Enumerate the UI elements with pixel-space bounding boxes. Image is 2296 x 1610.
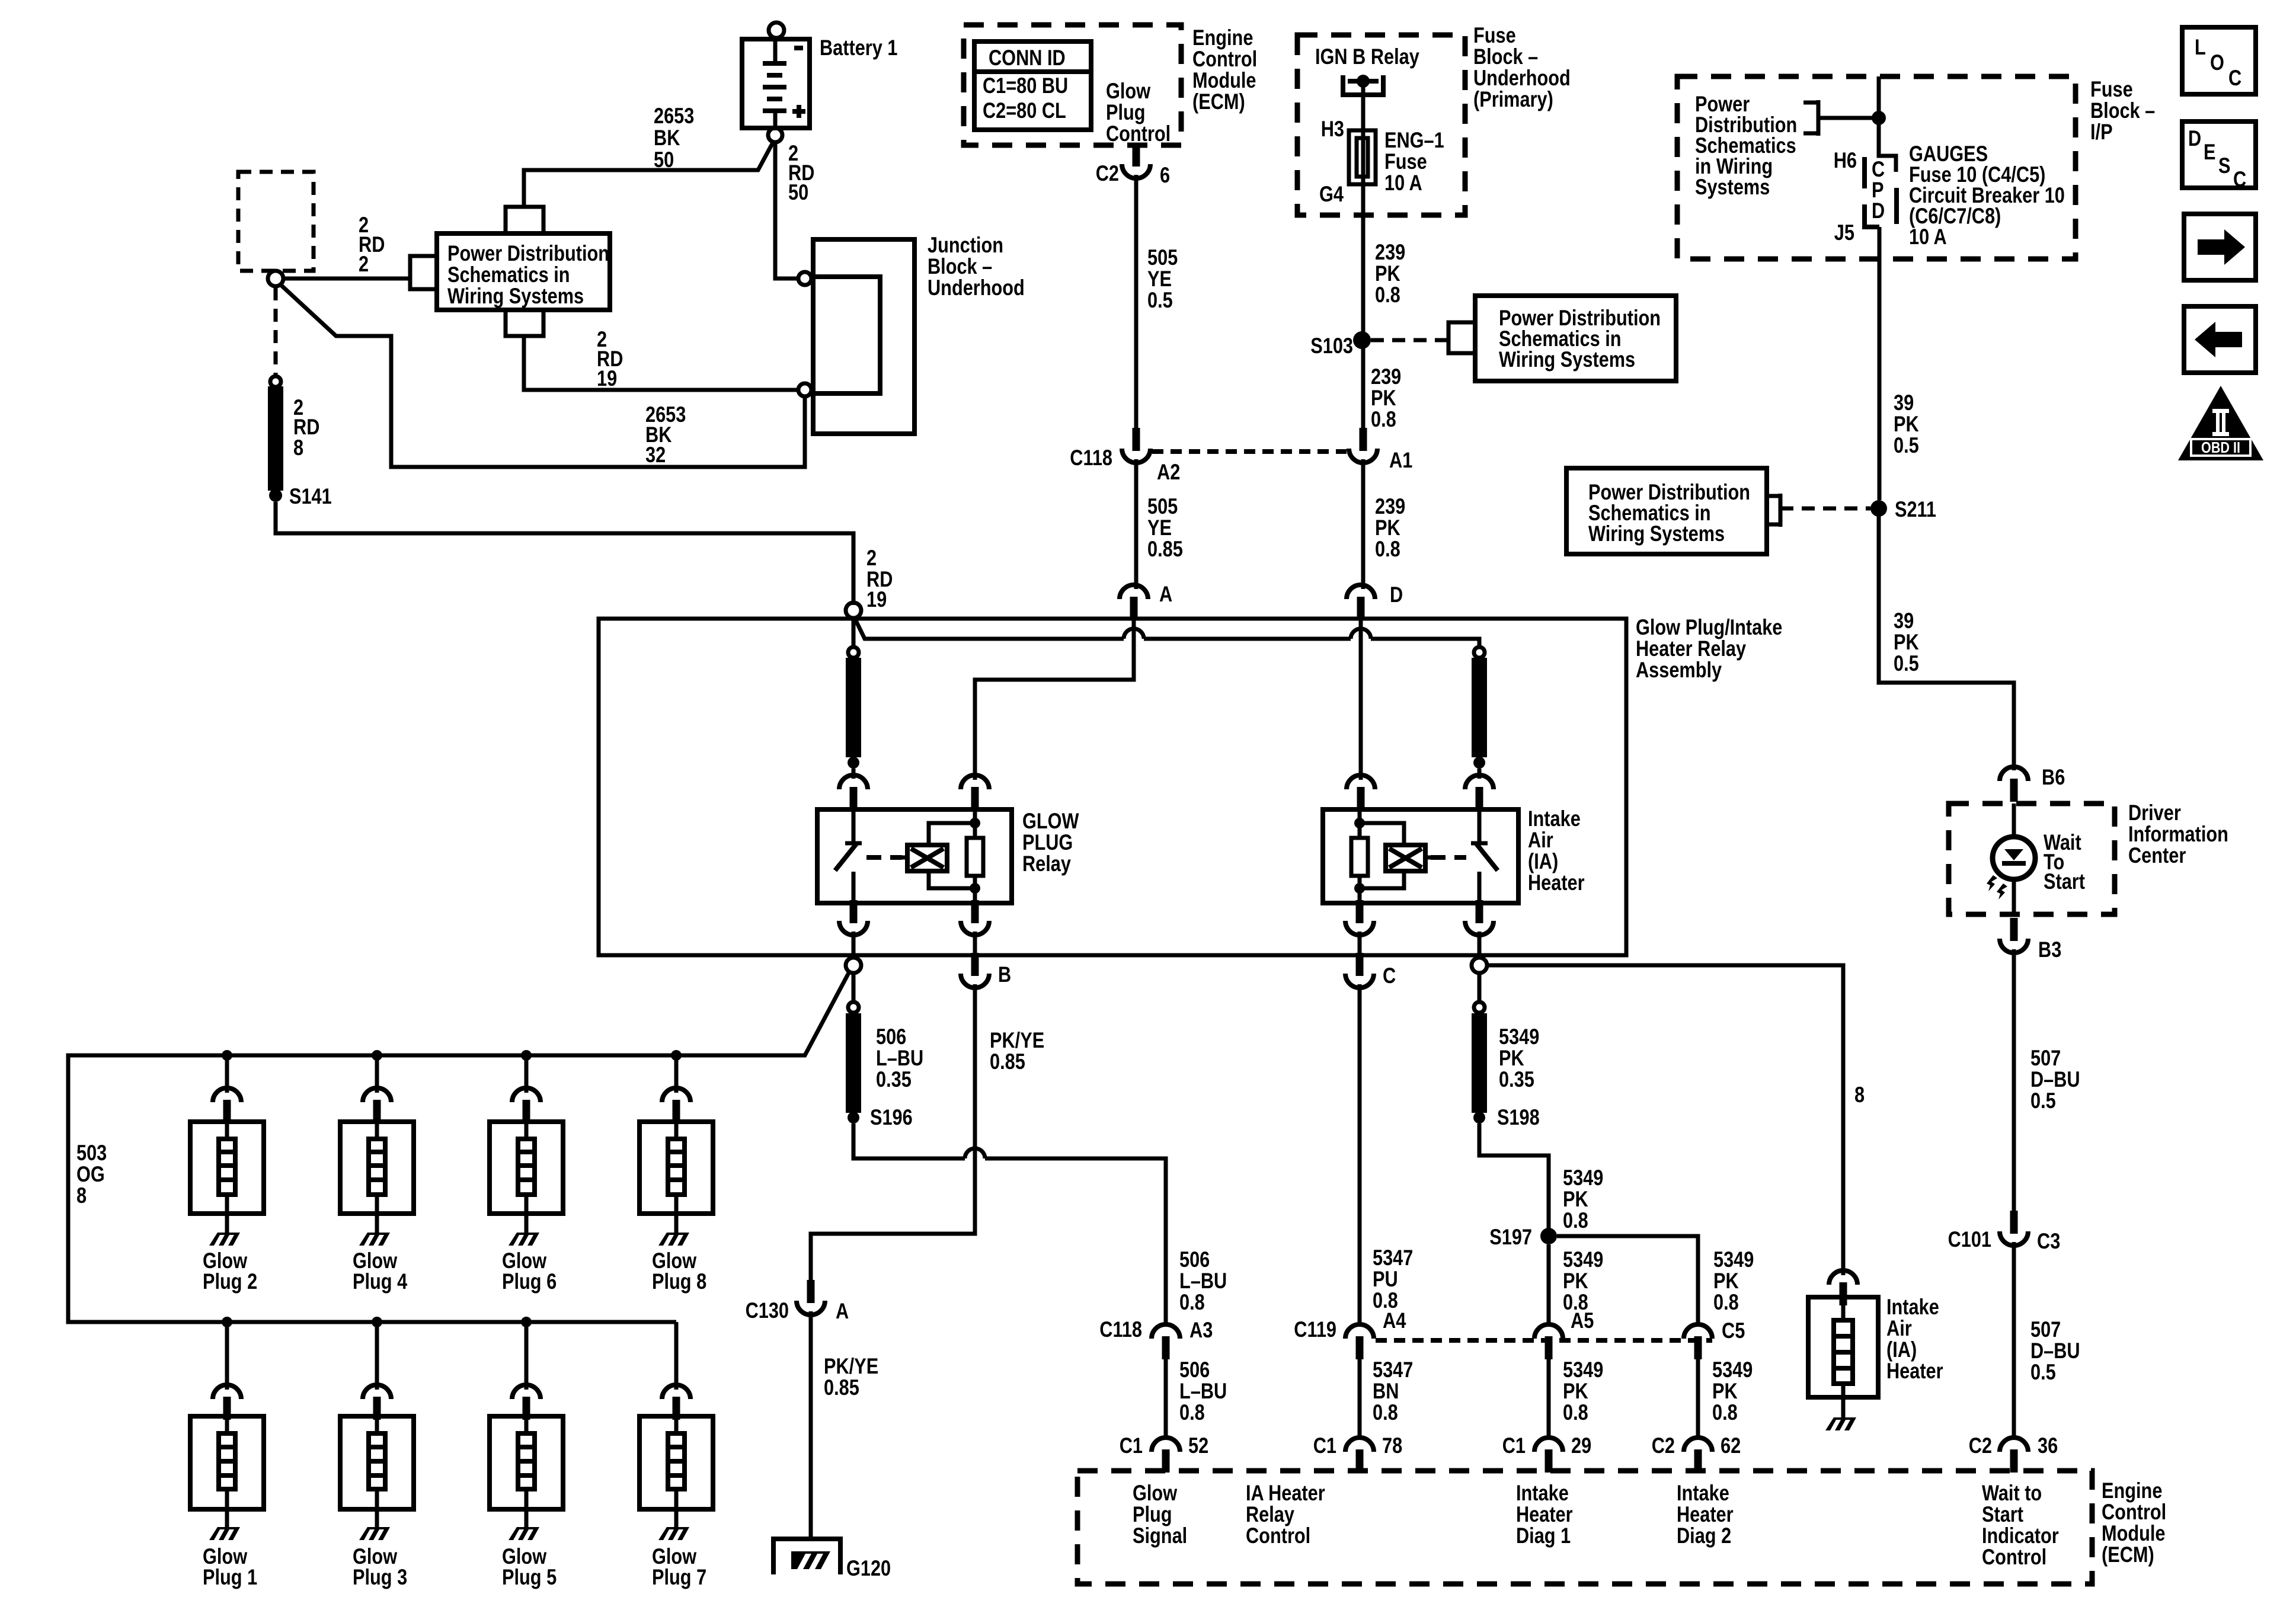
svg-text:IGN B Relay: IGN B Relay: [1315, 44, 1419, 69]
svg-text:Intake: Intake: [1516, 1481, 1569, 1505]
wire 505 YE 0.85: [1134, 459, 1139, 589]
svg-text:Air: Air: [1528, 828, 1553, 852]
svg-text:Systems: Systems: [1695, 175, 1770, 199]
svg-text:S196: S196: [870, 1105, 913, 1129]
svg-text:0.8: 0.8: [1713, 1290, 1739, 1314]
svg-text:Underhood: Underhood: [1473, 66, 1571, 90]
svg-text:PK: PK: [1894, 630, 1919, 654]
battery B1 negative terminal: [769, 23, 784, 38]
glow plug 7: [639, 1322, 713, 1540]
connector C118 pin A3: [1152, 1324, 1180, 1359]
svg-text:Wiring Systems: Wiring Systems: [1588, 521, 1725, 546]
svg-text:Module: Module: [2102, 1521, 2166, 1545]
junction block top terminal: [798, 272, 811, 285]
fuse block I/P (dashed): [1677, 76, 2076, 259]
svg-text:Block –: Block –: [2090, 98, 2155, 123]
svg-text:CONN ID: CONN ID: [989, 46, 1066, 70]
svg-text:8: 8: [1854, 1083, 1865, 1107]
svg-text:Schematics in: Schematics in: [447, 263, 570, 287]
svg-text:C3: C3: [2037, 1229, 2060, 1253]
svg-text:Heater: Heater: [1528, 870, 1585, 895]
svg-text:Heater: Heater: [1886, 1359, 1943, 1383]
glow plug 5: [490, 1322, 563, 1540]
glow relay resistor: [967, 838, 983, 876]
wire pin A to glow relay coil: [975, 620, 1134, 780]
svg-text:S211: S211: [1895, 497, 1936, 521]
connector C2 pin 36: [2000, 1438, 2028, 1473]
svg-text:19: 19: [866, 587, 887, 612]
wire 5349 PK 0.8 (S197 to A5): [1547, 1244, 1551, 1326]
svg-text:10 A: 10 A: [1909, 225, 1947, 249]
connector C119 pin A5: [1534, 1324, 1563, 1359]
glow plug 1: [190, 1322, 264, 1540]
svg-text:0.8: 0.8: [1375, 283, 1400, 307]
svg-text:239: 239: [1375, 494, 1405, 518]
svg-text:Center: Center: [2128, 843, 2186, 868]
wire 5347 PU 0.8 (pin C to C119 A4): [1358, 984, 1362, 1326]
off-page bracket (fuse block power distribution): [1803, 100, 1818, 136]
svg-text:0.8: 0.8: [1563, 1400, 1588, 1425]
svg-text:39: 39: [1894, 609, 1914, 633]
intake air heater: [1829, 1270, 1857, 1305]
connector pin B3: [2000, 918, 2028, 953]
node ring IA feed out: [1472, 958, 1487, 973]
svg-text:Indicator: Indicator: [1982, 1523, 2059, 1548]
connector pin D: [1347, 585, 1375, 620]
svg-text:10 A: 10 A: [1384, 171, 1422, 195]
glow plug 8: [639, 1055, 713, 1246]
glow plug 4: [340, 1055, 414, 1246]
terminal ring: [268, 271, 283, 286]
svg-text:62: 62: [1721, 1433, 1741, 1458]
svg-text:Plug 7: Plug 7: [652, 1565, 706, 1589]
wire 39 PK 0.5 (S211 to B6): [1879, 508, 2014, 770]
svg-text:PLUG: PLUG: [1022, 830, 1073, 854]
svg-text:(ECM): (ECM): [2102, 1542, 2154, 1567]
svg-text:C: C: [1383, 964, 1396, 988]
connector pin B6: [2000, 767, 2028, 802]
splice S211: [1870, 500, 1887, 517]
svg-text:5347: 5347: [1373, 1358, 1413, 1382]
svg-text:Engine: Engine: [2102, 1478, 2162, 1503]
svg-text:Air: Air: [1886, 1316, 1912, 1340]
module ECM (top, dashed): [964, 25, 1181, 145]
connector C101 pin C3: [2000, 1211, 2028, 1246]
dashed wire terminal down: [274, 287, 278, 375]
svg-text:0.8: 0.8: [1563, 1208, 1588, 1233]
icon DESC: [2182, 121, 2256, 188]
svg-text:Intake: Intake: [1886, 1295, 1939, 1319]
LED arrows: [1987, 875, 1997, 891]
wire 2 RD 19 (PDS1 bottom to junction block): [524, 336, 798, 390]
svg-text:PK: PK: [1499, 1046, 1524, 1070]
svg-text:C5: C5: [1722, 1318, 1745, 1343]
wire 507 D-BU 0.5 (B3 to C101): [2012, 949, 2016, 1211]
module Driver Information Center (dashed): [1949, 804, 2115, 914]
connector pin C: [1345, 953, 1374, 988]
svg-text:Wiring Systems: Wiring Systems: [1499, 347, 1635, 372]
wire S196 to C118 A3 (hops over B wire): [853, 1124, 965, 1158]
connector C1 pin 78: [1345, 1438, 1374, 1473]
svg-text:C101: C101: [1948, 1227, 1991, 1251]
box Power Distribution Schematics (1): [437, 233, 610, 310]
IA relay switch: [1471, 811, 1488, 902]
svg-text:(IA): (IA): [1886, 1337, 1917, 1362]
svg-text:Plug: Plug: [1133, 1502, 1172, 1526]
connector C130 pin A: [797, 1280, 825, 1315]
svg-text:Control: Control: [1982, 1545, 2046, 1569]
svg-text:0.5: 0.5: [2030, 1089, 2056, 1113]
battery B1 positive terminal: [768, 128, 782, 142]
svg-text:C118: C118: [1070, 446, 1112, 470]
connector pin B: [961, 953, 989, 988]
wire relay to fuse: [1361, 81, 1366, 132]
svg-text:0.8: 0.8: [1179, 1290, 1205, 1314]
svg-text:PK/YE: PK/YE: [990, 1028, 1044, 1052]
svg-text:78: 78: [1382, 1433, 1402, 1458]
icon arrow left: [2184, 306, 2256, 373]
svg-text:505: 505: [1147, 494, 1178, 518]
svg-text:D: D: [1872, 199, 1885, 223]
svg-text:J5: J5: [1834, 220, 1854, 245]
short wire ring to fusible link (left): [852, 618, 856, 648]
svg-text:C1: C1: [1502, 1433, 1526, 1458]
fusible link 506 L-BU 0.35: [852, 973, 856, 1003]
dashed connector line C119 A4-A5-C5: [1376, 1338, 1712, 1343]
connector C1 pin 52: [1152, 1438, 1180, 1473]
svg-text:C2: C2: [1652, 1433, 1675, 1458]
svg-text:Plug 5: Plug 5: [502, 1565, 557, 1589]
svg-text:505: 505: [1147, 245, 1178, 270]
svg-text:Intake: Intake: [1677, 1481, 1729, 1505]
wire 239 PK 0.8 (fuse to S103): [1361, 183, 1366, 340]
svg-text:C2=80 CL: C2=80 CL: [983, 98, 1066, 123]
svg-text:8: 8: [76, 1183, 87, 1208]
off-page bracket PDS3: [1767, 494, 1780, 527]
svg-text:G120: G120: [846, 1556, 891, 1580]
wire terminal to bracket: [283, 277, 410, 281]
wire 39 PK 0.5 (J5 to S211): [1878, 227, 1882, 500]
svg-text:YE: YE: [1147, 516, 1172, 540]
off-page bracket PDS2: [1448, 322, 1475, 353]
connector (unnamed, dashed): [238, 172, 314, 271]
splice S198: [1473, 1112, 1485, 1124]
svg-text:PK: PK: [1375, 516, 1400, 540]
battery B1: [742, 39, 810, 128]
icon LOC: [2182, 27, 2256, 94]
svg-text:0.5: 0.5: [1894, 651, 1919, 676]
svg-text:507: 507: [2030, 1046, 2061, 1070]
svg-text:8: 8: [293, 436, 303, 460]
svg-text:BN: BN: [1373, 1379, 1399, 1403]
icon OBD II triangle: [2178, 386, 2263, 460]
svg-text:ENG–1: ENG–1: [1384, 128, 1444, 152]
svg-text:19: 19: [597, 366, 617, 391]
svg-text:6: 6: [1160, 163, 1170, 187]
connector C118 pin A2: [1122, 428, 1150, 463]
wire 5349 PK 0.8 (S198 to S197): [1479, 1124, 1549, 1229]
fusible link (glow relay feed): [848, 647, 859, 658]
wire S141 to relay assembly: [276, 502, 853, 605]
wire 239 PK 0.8 (S103 to C118 A1): [1361, 340, 1366, 428]
wire 8 (IA relay to IA heater): [1487, 965, 1843, 1275]
svg-text:B6: B6: [2042, 765, 2065, 789]
splice S197: [1540, 1228, 1557, 1244]
svg-text:2: 2: [866, 546, 877, 570]
relay IGN B output symbol: [1343, 75, 1383, 95]
svg-text:506: 506: [1179, 1358, 1210, 1382]
svg-text:H3: H3: [1321, 117, 1344, 141]
wire fuse block feed: [1879, 76, 1896, 172]
fusible link 2 RD 8: [270, 376, 281, 387]
fuse block underhood primary (dashed): [1297, 35, 1465, 215]
svg-text:506: 506: [1179, 1247, 1210, 1272]
connector C118 pin A1: [1349, 428, 1377, 463]
svg-text:5347: 5347: [1373, 1246, 1413, 1270]
svg-text:Power Distribution: Power Distribution: [447, 241, 609, 265]
node dots on glow buses: [222, 1050, 232, 1061]
node on fuse feed: [1872, 111, 1886, 125]
icon arrow right: [2184, 214, 2256, 280]
connector C2 pin 62: [1684, 1438, 1712, 1473]
svg-text:G4: G4: [1319, 182, 1344, 206]
svg-text:Fuse: Fuse: [1384, 149, 1427, 174]
svg-text:S197: S197: [1489, 1225, 1532, 1249]
wire 2653 BK 50 (PDS1 to battery negative): [524, 140, 774, 207]
svg-text:PK: PK: [1563, 1269, 1588, 1293]
connector C1 pin 29: [1534, 1438, 1563, 1473]
splice S141: [269, 489, 282, 502]
connector C2 pin 6: [1122, 143, 1150, 178]
svg-text:0.8: 0.8: [1179, 1400, 1205, 1425]
connector pin A: [1120, 585, 1148, 620]
fuse GAUGES / circuit breaker CPD: [1862, 157, 1867, 188]
svg-text:Plug 2: Plug 2: [203, 1269, 257, 1294]
svg-text:0.8: 0.8: [1712, 1400, 1738, 1425]
junction block underhood: [813, 239, 914, 434]
svg-text:5349: 5349: [1713, 1247, 1754, 1272]
svg-text:Heater Relay: Heater Relay: [1636, 636, 1746, 661]
svg-text:Plug 4: Plug 4: [353, 1269, 408, 1294]
svg-text:Driver: Driver: [2128, 801, 2181, 825]
svg-text:OBD II: OBD II: [2201, 438, 2240, 456]
svg-text:BK: BK: [654, 126, 680, 150]
svg-text:Intake: Intake: [1528, 806, 1581, 831]
svg-text:S: S: [2218, 153, 2231, 178]
svg-text:Start: Start: [2044, 869, 2085, 894]
svg-text:Fuse: Fuse: [2090, 77, 2133, 101]
svg-text:PK: PK: [1712, 1379, 1738, 1403]
svg-text:(IA): (IA): [1528, 849, 1558, 873]
connector C119 pin C5: [1684, 1324, 1712, 1359]
svg-text:5349: 5349: [1563, 1166, 1603, 1190]
wire 5347 BN 0.8 (A4 to C1 78): [1358, 1359, 1362, 1439]
splice S103: [1353, 331, 1371, 349]
svg-text:Plug 1: Plug 1: [203, 1565, 257, 1589]
svg-text:29: 29: [1571, 1433, 1591, 1458]
dashed wire S103 to PDS2 bracket: [1371, 338, 1448, 343]
svg-text:239: 239: [1371, 364, 1401, 389]
box Power Distribution Schematics (3): [1566, 468, 1767, 554]
svg-text:PK: PK: [1713, 1269, 1739, 1293]
svg-text:PK: PK: [1375, 261, 1400, 286]
svg-text:PU: PU: [1373, 1267, 1398, 1291]
wire bracket to bus dot: [1818, 116, 1879, 120]
svg-text:Start: Start: [1982, 1502, 2023, 1526]
IA relay coil: [1431, 855, 1466, 860]
svg-text:Wiring Systems: Wiring Systems: [447, 284, 584, 308]
svg-text:E: E: [2204, 140, 2216, 164]
svg-text:0.5: 0.5: [1147, 288, 1173, 312]
junction block bottom terminal: [798, 383, 811, 396]
svg-text:A: A: [1159, 582, 1172, 606]
dashed connector line C118 A2-A1: [1152, 449, 1347, 454]
wire 5349 PK 0.8 (A5 to C1 29): [1547, 1359, 1551, 1439]
svg-text:Block –: Block –: [1473, 44, 1538, 69]
svg-text:C119: C119: [1294, 1317, 1336, 1342]
svg-text:Diag 2: Diag 2: [1677, 1523, 1731, 1548]
svg-text:D–BU: D–BU: [2030, 1067, 2080, 1092]
stub bracket bottom of PDS1: [506, 310, 543, 336]
svg-text:D–BU: D–BU: [2030, 1339, 2080, 1363]
svg-text:S103: S103: [1310, 334, 1353, 358]
svg-text:Plug 3: Plug 3: [353, 1565, 407, 1589]
svg-text:I/P: I/P: [2090, 120, 2113, 144]
svg-text:Information: Information: [2128, 822, 2228, 846]
svg-text:L–BU: L–BU: [1179, 1269, 1227, 1293]
node ring battery feed on assembly bus: [846, 603, 861, 618]
svg-text:50: 50: [654, 148, 674, 172]
svg-text:Glow Plug/Intake: Glow Plug/Intake: [1636, 615, 1782, 639]
svg-text:Assembly: Assembly: [1636, 658, 1722, 682]
svg-text:D: D: [2188, 126, 2201, 151]
glow plug / intake heater relay assembly box: [599, 619, 1626, 955]
splice S196: [848, 1112, 859, 1124]
svg-text:Heater: Heater: [1516, 1502, 1573, 1526]
fuse ENG-1 10A: [1349, 130, 1376, 184]
svg-text:Plug 8: Plug 8: [652, 1269, 706, 1294]
node ring glow feed out: [846, 958, 861, 973]
svg-text:(ECM): (ECM): [1192, 89, 1245, 114]
wire 2653 BK 32 (terminal to junction block bottom): [281, 285, 805, 467]
svg-text:Plug 6: Plug 6: [502, 1269, 557, 1294]
svg-text:PK: PK: [1563, 1379, 1588, 1403]
svg-text:L: L: [2195, 35, 2206, 59]
ground G120: [773, 1539, 840, 1574]
svg-text:503: 503: [76, 1141, 107, 1165]
svg-text:0.35: 0.35: [1499, 1067, 1534, 1092]
wire PK/YE 0.85 (pin B to C130): [811, 984, 975, 1281]
svg-text:OG: OG: [76, 1162, 105, 1186]
wire pin D to IA relay coil: [1359, 620, 1363, 780]
svg-text:32: 32: [645, 443, 666, 467]
svg-text:A2: A2: [1157, 460, 1180, 484]
svg-text:PK: PK: [1371, 386, 1396, 410]
svg-text:C: C: [2233, 167, 2246, 191]
svg-text:(Primary): (Primary): [1473, 87, 1553, 111]
svg-text:5349: 5349: [1499, 1025, 1539, 1049]
relay Intake Air (IA) Heater: [1323, 809, 1518, 903]
svg-text:5349: 5349: [1712, 1358, 1753, 1382]
svg-text:Relay: Relay: [1022, 852, 1071, 876]
fusible link (IA relay feed): [1474, 647, 1485, 658]
svg-text:0.5: 0.5: [2030, 1360, 2056, 1384]
svg-text:Underhood: Underhood: [928, 276, 1025, 300]
svg-text:0.85: 0.85: [1147, 537, 1183, 561]
wire 2 RD 50 battery to junction block: [775, 142, 798, 279]
svg-text:50: 50: [788, 180, 808, 204]
module ECM (bottom, dashed): [1077, 1471, 2092, 1584]
glow relay coil: [866, 855, 902, 860]
CONN ID table: [974, 41, 1091, 130]
svg-text:2653: 2653: [654, 104, 694, 128]
dashed wire PDS3 to S211: [1780, 507, 1870, 511]
svg-text:YE: YE: [1147, 267, 1172, 291]
relay GLOW PLUG: [817, 809, 1012, 903]
svg-text:D: D: [1390, 582, 1403, 607]
svg-text:Control: Control: [1106, 121, 1171, 146]
svg-text:0.5: 0.5: [1894, 433, 1919, 457]
glow plug 3: [340, 1322, 414, 1540]
svg-text:A1: A1: [1389, 448, 1412, 472]
svg-text:36: 36: [2038, 1433, 2058, 1458]
svg-text:Fuse: Fuse: [1473, 23, 1516, 47]
svg-text:Heater: Heater: [1677, 1502, 1734, 1526]
svg-text:506: 506: [876, 1025, 906, 1049]
svg-text:239: 239: [1375, 240, 1405, 264]
svg-text:0.8: 0.8: [1373, 1400, 1398, 1425]
svg-text:C2: C2: [1969, 1433, 1992, 1458]
off-page bracket to Power Distribution box 1: [410, 256, 437, 289]
svg-text:Control: Control: [1246, 1523, 1310, 1548]
wire 5349 PK 0.8 (S197 to C5): [1557, 1236, 1698, 1326]
svg-text:Plug: Plug: [1106, 100, 1146, 124]
svg-text:2: 2: [359, 252, 369, 276]
svg-text:C1: C1: [1120, 1433, 1143, 1458]
svg-text:5349: 5349: [1563, 1247, 1603, 1272]
IA relay resistor: [1351, 838, 1368, 876]
svg-text:Glow: Glow: [1106, 79, 1150, 103]
svg-text:B3: B3: [2038, 937, 2061, 962]
svg-text:A5: A5: [1571, 1308, 1594, 1333]
svg-text:C118: C118: [1099, 1317, 1142, 1342]
wire 503 OG 8 glow plug feed bus (top): [68, 972, 849, 1322]
svg-text:Diag 1: Diag 1: [1516, 1523, 1571, 1548]
svg-text:C1: C1: [1313, 1433, 1336, 1458]
wire 506 L-BU 0.8 (A3 to C1 52): [1164, 1359, 1168, 1439]
wire 239 PK 0.8 (A1 to relay assembly D): [1361, 459, 1366, 589]
svg-text:Block –: Block –: [928, 254, 992, 279]
glow relay switch: [845, 811, 862, 902]
svg-text:L–BU: L–BU: [1179, 1379, 1227, 1403]
svg-text:C: C: [2228, 66, 2241, 90]
svg-text:Control: Control: [2102, 1500, 2166, 1524]
svg-text:H6: H6: [1834, 148, 1857, 172]
svg-text:0.35: 0.35: [876, 1067, 912, 1092]
svg-text:S141: S141: [289, 484, 332, 508]
indicator LED Wait To Start: [2012, 804, 2016, 838]
svg-text:PK/YE: PK/YE: [824, 1354, 878, 1378]
svg-text:PK: PK: [1563, 1187, 1588, 1211]
box Power Distribution Schematics (2): [1475, 296, 1676, 381]
svg-text:Engine: Engine: [1192, 25, 1253, 50]
svg-text:S198: S198: [1497, 1105, 1540, 1129]
svg-text:A4: A4: [1383, 1308, 1406, 1333]
svg-text:A: A: [836, 1299, 849, 1323]
svg-text:C1=80 BU: C1=80 BU: [983, 73, 1068, 98]
glow plug 6: [490, 1055, 563, 1246]
svg-text:Signal: Signal: [1133, 1523, 1187, 1548]
